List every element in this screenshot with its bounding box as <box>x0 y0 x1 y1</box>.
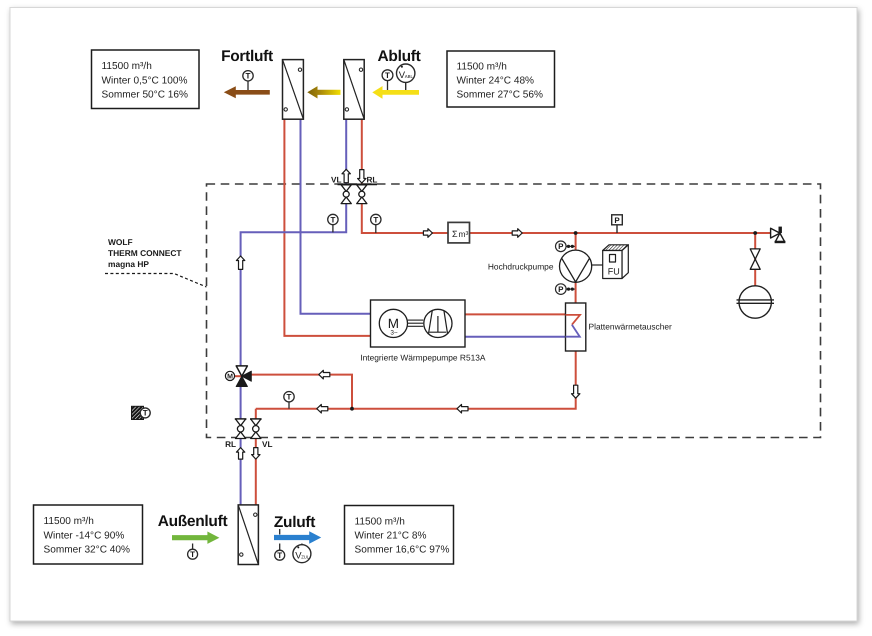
svg-text:P: P <box>558 242 564 251</box>
svg-text:ZUL: ZUL <box>301 554 310 559</box>
flow arrow VL up (top) <box>342 169 350 182</box>
svg-text:T: T <box>330 215 335 224</box>
valve VL top (with actuator circle) <box>341 185 351 204</box>
wire blue RL shutoff valve down to Aussenluft coil <box>240 438 242 505</box>
leader line to boundary <box>105 274 207 288</box>
svg-text:Plattenwärmetauscher: Plattenwärmetauscher <box>589 321 673 331</box>
valve RL top (with actuator circle) <box>357 185 367 204</box>
safety valve <box>771 227 786 242</box>
wire red M actuator link <box>235 375 242 377</box>
three-way mixing valve with M actuator <box>225 366 251 387</box>
svg-text:Integrierte Wärmpepumpe R513A: Integrierte Wärmpepumpe R513A <box>360 353 486 363</box>
arrow Fortluft (brown) <box>224 86 270 98</box>
wire red Abluft coil RL down to valve <box>361 119 363 185</box>
wire red plate heat exchanger bottom return <box>256 351 576 409</box>
heating coil Fortluft <box>283 60 304 120</box>
svg-text:WOLF: WOLF <box>108 237 133 247</box>
wire red RL valve to main header line <box>362 204 771 234</box>
svg-text:Abluft: Abluft <box>378 48 421 65</box>
arrow Aussenluft (green) <box>172 532 219 544</box>
sensor T on RL line <box>371 214 381 233</box>
wire blue Abluft coil VL down to valve <box>345 119 347 185</box>
svg-text:11500 m³/h: 11500 m³/h <box>102 61 152 72</box>
pump P sensor lower <box>556 284 575 295</box>
svg-text:11500 m³/h: 11500 m³/h <box>457 62 507 73</box>
sensor P square on header <box>612 215 623 233</box>
wire red expansion vessel branch <box>754 233 756 286</box>
label Integrierte Waermpepumpe R513A <box>360 353 486 363</box>
svg-text:T: T <box>190 550 195 559</box>
pump Hochdruckpumpe circle <box>560 250 592 282</box>
expansion vessel <box>737 286 775 318</box>
motor M 3~ circle <box>379 309 407 337</box>
junction node bypass branch <box>350 407 354 411</box>
svg-text:P: P <box>614 216 620 225</box>
junction node vessel branch <box>753 231 757 235</box>
label VL top <box>331 176 341 185</box>
svg-text:Winter 24°C 48%: Winter 24°C 48% <box>457 76 535 87</box>
wire red Fortluft coil supply to heat pump <box>284 119 370 336</box>
manifold line across top valves <box>338 183 378 185</box>
svg-text:Σ: Σ <box>452 229 458 239</box>
valve RL bottom (with actuator circle) <box>235 419 247 439</box>
wire red VL down branch to Aussenluft coil <box>255 409 257 505</box>
svg-text:RL: RL <box>225 440 236 449</box>
coupling shaft <box>408 320 424 326</box>
label RL bottom <box>225 440 236 449</box>
svg-text:Sommer 27°C 56%: Sommer 27°C 56% <box>457 90 544 101</box>
sensor T Zuluft <box>275 529 285 560</box>
svg-text:Hochdruckpumpe: Hochdruckpumpe <box>488 261 554 271</box>
flow arrow RL up (bottom) <box>236 448 244 460</box>
heat pump unit box <box>371 300 466 347</box>
svg-text:Winter -14°C 90%: Winter -14°C 90% <box>44 530 125 541</box>
label Plattenwaermetauscher <box>589 321 673 331</box>
wire red bypass branch to mixing valve <box>251 375 352 409</box>
data box Aussenluft <box>34 505 143 564</box>
arrow Abluft (yellow) <box>372 86 419 99</box>
outdoor temperature sensor (hatched wall) <box>132 406 151 419</box>
flow arrow left (return to coil) <box>457 404 468 413</box>
label Zuluft <box>274 514 315 531</box>
sensor T Fortluft <box>243 71 253 90</box>
data box Fortluft <box>92 50 200 109</box>
heating coil Aussenluft <box>238 505 258 565</box>
svg-text:VL: VL <box>262 440 272 449</box>
compressor circle <box>424 309 452 337</box>
arrow between coils (gold gradient) <box>307 86 340 98</box>
dashed unit boundary <box>207 184 821 438</box>
flow arrow RL down (top) <box>358 170 366 183</box>
data box Zuluft <box>345 506 454 565</box>
sensor T Abluft <box>382 70 393 90</box>
wire blue VL valve to left riser <box>241 204 347 367</box>
flow arrow left (lower near tee) <box>317 404 328 413</box>
sensor V_ABL volume flow <box>397 64 415 90</box>
svg-text:T: T <box>373 215 378 224</box>
sensor V_ZUL volume flow <box>293 544 311 563</box>
data box Abluft <box>447 51 555 107</box>
svg-text:FU: FU <box>608 266 620 276</box>
wire red heat pump to plate heat exchanger <box>465 313 566 315</box>
sensor T on VL line <box>328 214 338 232</box>
svg-text:magna HP: magna HP <box>108 259 149 269</box>
svg-text:11500 m³/h: 11500 m³/h <box>355 517 405 528</box>
wire blue Fortluft coil return to heat pump <box>301 119 371 314</box>
svg-text:T: T <box>143 409 148 418</box>
label RL top <box>367 176 378 185</box>
svg-text:T: T <box>287 393 292 402</box>
flow meter sum m3 <box>448 222 470 243</box>
WOLF THERM CONNECT label <box>108 237 182 269</box>
svg-text:Außenluft: Außenluft <box>158 513 228 530</box>
wire blue mixing valve down to RL shutoff valve <box>240 386 242 419</box>
flow arrow down (PWT outlet) <box>572 385 580 398</box>
heating coil Abluft <box>344 60 364 120</box>
label VL bottom <box>262 440 272 449</box>
svg-text:Winter 0,5°C 100%: Winter 0,5°C 100% <box>102 75 188 86</box>
valve VL bottom (with actuator circle) <box>250 419 262 439</box>
label Abluft <box>378 48 421 65</box>
svg-text:Sommer 16,6°C 97%: Sommer 16,6°C 97% <box>355 545 450 556</box>
pump P sensor upper <box>556 241 575 252</box>
svg-text:M: M <box>227 374 233 381</box>
svg-text:Zuluft: Zuluft <box>274 514 315 531</box>
wire blue plate heat exchanger to heat pump <box>465 336 566 338</box>
svg-text:Winter 21°C 8%: Winter 21°C 8% <box>355 531 427 542</box>
svg-text:Fortluft: Fortluft <box>221 48 273 65</box>
plate heat exchanger <box>566 303 586 351</box>
svg-text:VL: VL <box>331 176 341 185</box>
sensor T Aussenluft <box>188 544 198 560</box>
shutoff valve above expansion vessel <box>750 249 760 269</box>
flow arrow left (bypass to mixing valve) <box>319 370 330 379</box>
svg-text:T: T <box>277 551 282 560</box>
svg-text:T: T <box>385 71 390 80</box>
sensor T on return line <box>284 392 294 409</box>
label Fortluft <box>221 48 273 65</box>
wire red pump branch vertical <box>575 233 577 303</box>
svg-text:RL: RL <box>367 176 378 185</box>
svg-text:ABL: ABL <box>405 74 414 79</box>
svg-text:m³: m³ <box>459 229 469 239</box>
label Aussenluft <box>158 513 228 530</box>
svg-text:Sommer 50°C 16%: Sommer 50°C 16% <box>102 90 189 101</box>
flow arrow right (before flow meter) <box>423 229 432 238</box>
flow arrow right (after flow meter) <box>512 229 522 238</box>
PIPES <box>235 119 771 505</box>
flow arrow up on blue riser <box>236 256 244 269</box>
svg-text:11500 m³/h: 11500 m³/h <box>44 516 94 527</box>
svg-text:Sommer 32°C 40%: Sommer 32°C 40% <box>44 545 131 556</box>
arrow Zuluft (blue) <box>274 531 321 543</box>
label Hochdruckpumpe <box>488 261 554 271</box>
frequency converter FU <box>592 245 629 279</box>
junction node pump branch <box>574 231 578 235</box>
svg-text:P: P <box>558 285 564 294</box>
svg-text:THERM CONNECT: THERM CONNECT <box>108 248 182 258</box>
svg-text:T: T <box>246 72 251 81</box>
svg-text:3~: 3~ <box>390 330 398 337</box>
flow arrow VL down (bottom) <box>252 448 260 460</box>
